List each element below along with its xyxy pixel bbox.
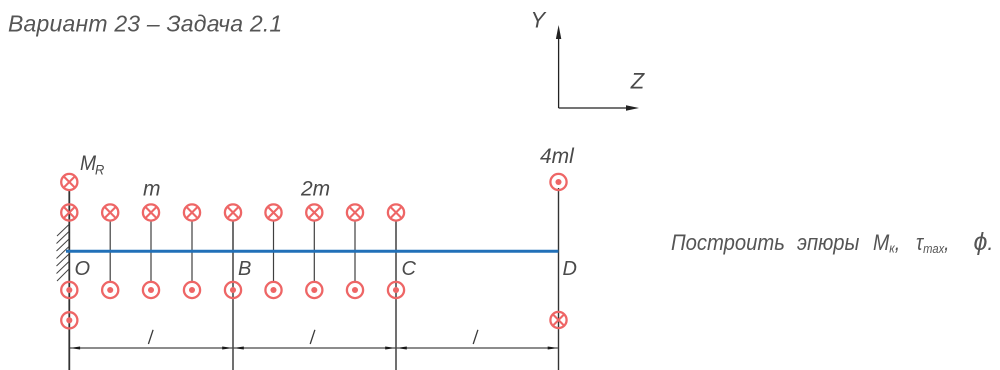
label MR	[80, 152, 105, 177]
distributed moment symbol (out of page) below beam at x=151 (col3)	[143, 282, 159, 298]
distributed moment symbol (into page) above beam at x=314.3 (col7)	[306, 204, 322, 220]
svg-text:2m: 2m	[300, 178, 330, 201]
wall hatching	[57, 225, 70, 282]
distributed moment symbol (out of page) below beam at x=314.3 (col7)	[306, 282, 322, 298]
column line B	[232, 221, 234, 370]
dimension line B-C	[233, 347, 396, 350]
svg-text:эпюры: эпюры	[797, 231, 860, 255]
svg-text:O: O	[75, 258, 91, 280]
distributed moment symbol (out of page) below beam at x=396 (C)	[388, 282, 404, 298]
svg-text:4ml: 4ml	[540, 145, 575, 168]
beam O-D	[66, 250, 559, 253]
svg-text:ϕ.: ϕ.	[974, 228, 994, 256]
distributed moment symbol (into page) above beam at x=273.5 (col6)	[265, 204, 281, 220]
distributed moment symbol (out of page) below beam at x=192 (col4)	[184, 282, 200, 298]
axis Y arrow	[556, 25, 561, 108]
svg-text:Вариант 23 – Задача 2.1: Вариант 23 – Задача 2.1	[8, 11, 282, 37]
dimension label l (B-C)	[310, 330, 315, 344]
distributed moment symbol (into page) above beam at x=355 (col8)	[347, 204, 363, 220]
svg-text:M: M	[80, 152, 96, 175]
svg-text:τmax,: τmax,	[916, 231, 949, 257]
svg-text:m: m	[143, 178, 161, 201]
wall line at O	[68, 190, 70, 370]
dimension label l (C-D)	[473, 330, 478, 344]
moment 4ml symbol (into page) at D bottom	[550, 312, 566, 328]
svg-text:Z: Z	[630, 69, 646, 94]
distributed moment symbol (into page) above beam at x=396 (C)	[388, 204, 404, 220]
task text: Построить эпюры Mк, τmax, φ.	[671, 228, 994, 256]
moment 4ml symbol (out of page) at D top	[550, 174, 566, 190]
distributed moment symbol (into page) above beam at x=110.2 (col2)	[102, 204, 118, 220]
moment MR symbol (into page) at O top	[61, 174, 77, 190]
dimension label l (O-B)	[148, 330, 153, 344]
distributed moment stems	[110, 221, 355, 282]
svg-text:Мк,: Мк,	[873, 231, 900, 256]
distributed moment symbol (out of page) below beam at x=110.2 (col2)	[102, 282, 118, 298]
svg-text:Построить: Построить	[671, 231, 785, 255]
axis Z arrow	[559, 105, 639, 110]
dimension line O-B	[69, 347, 233, 350]
dimension line C-D	[396, 347, 559, 350]
svg-text:D: D	[563, 258, 577, 280]
svg-text:R: R	[95, 162, 105, 178]
moment MR symbol (out of page) at O bottom	[61, 312, 77, 328]
distributed moment symbol (into page) above beam at x=233 (B)	[225, 204, 241, 220]
svg-text:C: C	[402, 258, 417, 280]
column line C	[395, 221, 397, 370]
distributed moment symbol (into page) above beam at x=69.3 (O)	[61, 204, 77, 220]
distributed moment symbol (into page) above beam at x=192 (col4)	[184, 204, 200, 220]
distributed moment symbol (out of page) below beam at x=69.3 (O)	[61, 282, 77, 298]
distributed moment symbol (into page) above beam at x=151 (col3)	[143, 204, 159, 220]
distributed moment symbol (out of page) below beam at x=273.5 (col6)	[265, 282, 281, 298]
svg-text:Y: Y	[531, 8, 547, 33]
svg-text:B: B	[238, 258, 251, 280]
column line D	[558, 188, 560, 370]
distributed moment symbol (out of page) below beam at x=233 (B)	[225, 282, 241, 298]
distributed moment symbol (out of page) below beam at x=355 (col8)	[347, 282, 363, 298]
